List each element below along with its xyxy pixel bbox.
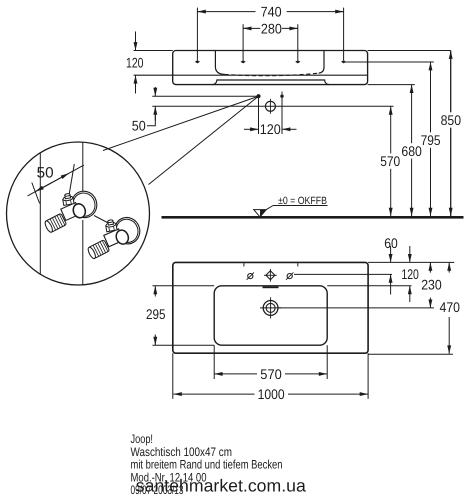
svg-text:120: 120 [401, 266, 419, 282]
svg-text:680: 680 [401, 143, 422, 159]
svg-text:570: 570 [260, 366, 282, 382]
svg-text:±0 = OKFFB: ±0 = OKFFB [278, 195, 327, 207]
svg-text:230: 230 [421, 277, 442, 293]
svg-text:1000: 1000 [258, 386, 285, 402]
svg-text:50: 50 [132, 118, 146, 134]
svg-text:120: 120 [260, 121, 281, 137]
svg-text:120: 120 [126, 54, 144, 70]
svg-text:795: 795 [421, 132, 441, 148]
svg-text:280: 280 [261, 20, 282, 36]
svg-text:740: 740 [261, 4, 282, 20]
svg-text:570: 570 [380, 153, 400, 169]
svg-text:50: 50 [37, 165, 54, 182]
svg-text:470: 470 [440, 299, 461, 315]
svg-text:09/07 2003/13: 09/07 2003/13 [131, 483, 184, 497]
svg-text:295: 295 [146, 306, 166, 322]
svg-text:60: 60 [384, 235, 398, 251]
svg-text:850: 850 [441, 112, 462, 128]
